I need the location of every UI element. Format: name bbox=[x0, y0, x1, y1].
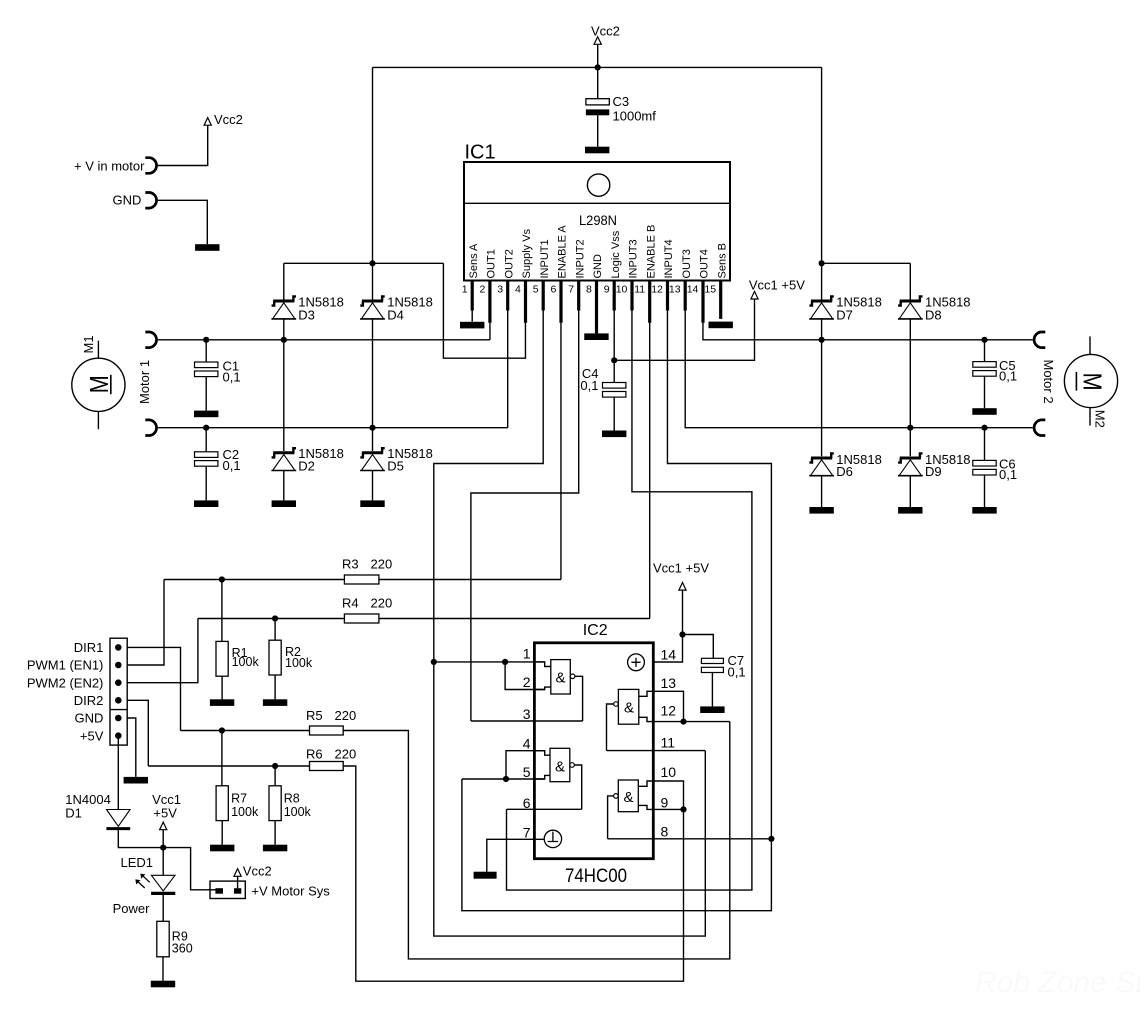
svg-text:7: 7 bbox=[568, 284, 574, 296]
svg-text:Vcc2: Vcc2 bbox=[214, 112, 243, 127]
wire IC2 pin12 bbox=[653, 721, 730, 723]
svg-text:3: 3 bbox=[497, 284, 503, 296]
IC1 pin 14 stub bbox=[701, 281, 704, 323]
svg-text:14: 14 bbox=[687, 284, 699, 296]
IC1 pin 9 stub bbox=[613, 281, 616, 311]
capacitor C7 bbox=[683, 635, 714, 659]
wire IC2 pin1 bbox=[434, 661, 545, 663]
ground D9 bbox=[898, 507, 922, 514]
node R7/R5 bbox=[219, 727, 225, 733]
ground R9 bbox=[151, 981, 175, 988]
diode D6 1N5818 bbox=[821, 340, 823, 456]
node R1/R3 bbox=[219, 576, 225, 582]
node IC2 pin4/pin5 tie bbox=[503, 776, 509, 782]
ground C6 bbox=[972, 507, 996, 514]
wire gate B output to pin11 bbox=[607, 704, 614, 751]
svg-text:M: M bbox=[84, 375, 114, 393]
resistor R2 100k bbox=[274, 619, 276, 641]
svg-text:L298N: L298N bbox=[579, 212, 617, 228]
svg-text:Vcc2: Vcc2 bbox=[591, 24, 620, 39]
svg-text:6: 6 bbox=[551, 284, 557, 296]
wire Logic Vss pin9 to node bbox=[613, 311, 615, 361]
wire IC2 pin2 input jog bbox=[535, 687, 551, 689]
svg-text:7: 7 bbox=[523, 825, 531, 841]
wire OUT3 pin13 to motor2 rail bbox=[685, 311, 1032, 428]
svg-text:&: & bbox=[555, 758, 565, 775]
wire motor1 top rail OUT1 bbox=[158, 339, 490, 341]
IC1 pin 5 stub bbox=[542, 281, 545, 311]
resistor R4 220 bbox=[198, 618, 345, 620]
wire Vcc2 rail left drop bbox=[372, 67, 374, 263]
node IC2 pin1/pin2 tie bbox=[502, 659, 508, 665]
node D3/OUT1 rail bbox=[281, 337, 287, 343]
wire ENABLE A pin6 to R3 bbox=[560, 323, 562, 580]
svg-text:0,1: 0,1 bbox=[999, 467, 1017, 482]
connector motor1 top bbox=[145, 332, 156, 348]
wire Vcc2 diode rail left bbox=[284, 262, 444, 264]
svg-text:+ V in motor: + V in motor bbox=[74, 158, 145, 173]
connector + V in motor bbox=[145, 158, 156, 174]
wire IC2 pin7 to ground bbox=[487, 839, 545, 871]
connector pin PWM1 (EN1) bbox=[115, 662, 122, 669]
svg-text:D1: D1 bbox=[65, 805, 82, 820]
svg-text:4: 4 bbox=[515, 284, 521, 296]
svg-text:Power: Power bbox=[113, 901, 151, 916]
svg-text:0,1: 0,1 bbox=[728, 665, 746, 680]
svg-text:INPUT1: INPUT1 bbox=[539, 239, 551, 278]
capacitor C6 bbox=[984, 428, 986, 461]
IC1 pin 1 stub bbox=[471, 281, 474, 311]
node D7/Vcc2 drop bbox=[819, 260, 825, 266]
node R2/R4 bbox=[272, 615, 278, 621]
ground GND input bbox=[195, 244, 219, 251]
wire IC2 pin4 bbox=[506, 751, 545, 779]
wire Vcc1 node to motor-sys connector bbox=[163, 848, 216, 890]
svg-text:&: & bbox=[624, 699, 634, 716]
svg-text:R5: R5 bbox=[306, 708, 323, 723]
svg-text:11: 11 bbox=[661, 735, 676, 751]
svg-text:0,1: 0,1 bbox=[223, 369, 241, 384]
wire gate C output to pin6 bbox=[574, 765, 581, 809]
wire INPUT1 pin5 to IC2 pin1 and pin11 loop bbox=[434, 311, 706, 937]
ground C7 bbox=[700, 706, 724, 713]
wire M1 bottom lead bbox=[97, 411, 99, 429]
wire OUT2 pin3 to motor1 rail bbox=[507, 311, 509, 428]
svg-text:GND: GND bbox=[592, 254, 604, 279]
svg-text:INPUT2: INPUT2 bbox=[574, 239, 586, 278]
IC1 pin 4 stub bbox=[524, 281, 527, 323]
IC IC1 L298N body bbox=[464, 162, 730, 281]
svg-text:220: 220 bbox=[371, 557, 393, 572]
svg-text:D5: D5 bbox=[387, 459, 404, 474]
svg-text:+5V: +5V bbox=[153, 805, 177, 820]
svg-text:Vcc1 +5V: Vcc1 +5V bbox=[749, 278, 805, 293]
node Vcc1/C7/pin14 bbox=[679, 631, 685, 637]
wire IC2 pin10 to pin9 tie bbox=[653, 781, 683, 809]
svg-text:&: & bbox=[623, 789, 633, 806]
IC1 pin 15 stub bbox=[719, 281, 722, 319]
IC1 pin 2 stub bbox=[488, 281, 491, 323]
wire motor1 bottom rail OUT2 bbox=[158, 427, 508, 429]
svg-text:R6: R6 bbox=[306, 747, 323, 762]
wire IC2 pin10 input jog bbox=[639, 781, 654, 786]
node IC2 pin9/10 tie bbox=[680, 806, 686, 812]
svg-text:220: 220 bbox=[335, 747, 357, 762]
nand gate C IC2 bbox=[550, 748, 570, 781]
svg-text:12: 12 bbox=[651, 284, 663, 296]
svg-text:100k: 100k bbox=[232, 655, 260, 669]
svg-text:GND: GND bbox=[75, 711, 104, 726]
svg-text:9: 9 bbox=[604, 284, 610, 296]
ground C1 bbox=[194, 411, 218, 418]
svg-text:M2: M2 bbox=[1093, 410, 1108, 428]
ground R8 bbox=[263, 845, 287, 852]
resistor R3 220 bbox=[164, 579, 344, 581]
svg-text:DIR1: DIR1 bbox=[74, 640, 104, 655]
node D8/OUT3 rail bbox=[907, 425, 913, 431]
wire IC2 pin5 input jog bbox=[535, 775, 550, 779]
diode D2 1N5818 bbox=[283, 340, 285, 451]
svg-text:+V Motor Sys: +V Motor Sys bbox=[251, 883, 330, 898]
wire IC2 pin13 to pin12 tie bbox=[653, 691, 683, 721]
resistor R8 100k bbox=[274, 766, 276, 786]
nand gate B IC2 bbox=[618, 689, 638, 724]
svg-text:0,1: 0,1 bbox=[223, 458, 241, 473]
svg-text:13: 13 bbox=[661, 675, 677, 691]
svg-text:100k: 100k bbox=[285, 656, 313, 670]
svg-text:2: 2 bbox=[523, 674, 531, 690]
svg-text:Supply Vs: Supply Vs bbox=[521, 228, 533, 278]
wire gate D output to pin8 bbox=[608, 796, 614, 839]
wire INPUT3 pin10 to IC2 pin6 loop bbox=[507, 311, 752, 891]
wire INPUT2 pin7 to IC2 pin3 bbox=[471, 311, 579, 722]
svg-text:11: 11 bbox=[634, 284, 645, 296]
wire Vcc2 rail right drop bbox=[821, 67, 823, 263]
ground C2 bbox=[194, 500, 218, 507]
resistor R9 360 bbox=[157, 921, 169, 957]
wire DIR2 to R6 bbox=[127, 700, 148, 766]
IC1 pin 12 stub bbox=[666, 281, 669, 311]
svg-text:OUT2: OUT2 bbox=[503, 249, 515, 278]
ground R2 bbox=[263, 699, 287, 706]
ground pin IC2 bbox=[544, 830, 561, 847]
node IC2 pin8/INPUT4 runner bbox=[768, 836, 774, 842]
motor M2 bbox=[1064, 354, 1117, 407]
svg-text:8: 8 bbox=[586, 284, 592, 296]
nand gate A IC2 bbox=[551, 660, 571, 694]
connector pin GND bbox=[115, 715, 122, 722]
wire M2 bottom lead bbox=[1089, 408, 1091, 426]
diode D8 1N5818 bbox=[909, 263, 911, 299]
svg-text:R7: R7 bbox=[231, 792, 247, 806]
wire Vcc2 rail top bbox=[373, 66, 822, 68]
power Vcc2 (motor input) bbox=[204, 118, 211, 126]
capacitor C2 bbox=[205, 428, 207, 452]
IC IC2 74HC00 body bbox=[534, 643, 653, 859]
node D7/OUT4 rail bbox=[819, 337, 825, 343]
svg-text:0,1: 0,1 bbox=[580, 378, 598, 393]
IC1 pin 11 stub bbox=[648, 281, 651, 323]
svg-text:OUT4: OUT4 bbox=[699, 249, 711, 278]
connector pin PWM2 (EN2) bbox=[115, 679, 122, 686]
svg-text:D9: D9 bbox=[925, 464, 942, 479]
svg-text:C3: C3 bbox=[613, 94, 630, 109]
svg-text:GND: GND bbox=[113, 192, 142, 207]
svg-text:D3: D3 bbox=[298, 307, 315, 322]
wire DIR1 to R5 bbox=[127, 647, 180, 730]
svg-text:PWM1 (EN1): PWM1 (EN1) bbox=[27, 658, 104, 673]
svg-text:IC1: IC1 bbox=[465, 142, 496, 164]
wire M2 top lead bbox=[1089, 336, 1091, 354]
svg-text:R3: R3 bbox=[342, 557, 359, 572]
capacitor C4 bbox=[613, 360, 615, 382]
svg-text:3: 3 bbox=[523, 706, 531, 722]
svg-text:1: 1 bbox=[462, 284, 468, 296]
ground IC2 pin7 bbox=[474, 872, 497, 879]
IC1 pin 13 stub bbox=[684, 281, 687, 311]
svg-text:PWM2 (EN2): PWM2 (EN2) bbox=[27, 675, 104, 690]
connector motor2 bottom bbox=[1034, 420, 1045, 436]
wire PWM1 to R3 bbox=[127, 580, 164, 666]
connector input header bbox=[110, 638, 127, 745]
nand gate D IC2 bbox=[618, 780, 638, 812]
IC1 pin 6 stub bbox=[559, 281, 562, 323]
motor M1 bbox=[72, 358, 125, 411]
diode D7 1N5818 bbox=[821, 263, 823, 299]
resistor R7 100k bbox=[221, 731, 223, 786]
wire ENABLE B pin11 to R4 bbox=[649, 323, 651, 619]
svg-text:Rob Zone SL: Rob Zone SL bbox=[975, 966, 1140, 999]
ground C5 bbox=[972, 408, 996, 415]
wire R6 to IC2 pins9/10 loop bbox=[343, 766, 683, 981]
svg-text:M1: M1 bbox=[81, 335, 96, 353]
svg-text:9: 9 bbox=[661, 795, 669, 811]
wire IC2 pin11 bbox=[607, 750, 706, 752]
wire R5 to IC2 pins12/13 loop bbox=[343, 722, 730, 959]
svg-text:ENABLE B: ENABLE B bbox=[645, 225, 657, 279]
svg-text:0,1: 0,1 bbox=[999, 369, 1017, 384]
IC1 pin 10 stub bbox=[630, 281, 633, 311]
svg-text:D2: D2 bbox=[298, 459, 315, 474]
svg-text:IC2: IC2 bbox=[583, 622, 608, 639]
wire IC2 pin8 bbox=[608, 838, 772, 840]
svg-text:8: 8 bbox=[661, 824, 669, 840]
capacitor C3 1000mf bbox=[597, 67, 599, 98]
ground D2 bbox=[272, 500, 296, 507]
power pin IC2 plus bbox=[628, 654, 645, 671]
svg-text:100k: 100k bbox=[231, 805, 259, 819]
svg-text:D7: D7 bbox=[836, 307, 853, 322]
svg-text:Logic Vss: Logic Vss bbox=[610, 230, 622, 278]
svg-text:M: M bbox=[1077, 373, 1107, 391]
connector pin +5V bbox=[115, 732, 122, 739]
svg-text:R4: R4 bbox=[342, 595, 359, 610]
svg-text:Sens B: Sens B bbox=[716, 243, 728, 278]
diode D4 1N5818 bbox=[372, 263, 374, 299]
IC1 pin 7 stub bbox=[577, 281, 580, 311]
wire gate A output to pin3 bbox=[575, 676, 583, 721]
ground C4 bbox=[602, 431, 626, 438]
wire Vcc2 arrow to rail bbox=[597, 44, 599, 67]
node INPUT1/IC2 pin1 bbox=[431, 659, 437, 665]
node Vcc2/C3 junction bbox=[595, 64, 601, 70]
wire IC2 pin4 input jog bbox=[535, 751, 550, 756]
svg-text:LED1: LED1 bbox=[121, 855, 154, 870]
node C1 top rail bbox=[203, 337, 209, 343]
resistor R5 220 bbox=[181, 730, 310, 732]
svg-text:Motor 1: Motor 1 bbox=[137, 360, 152, 404]
wire IC2 pin9 input jog bbox=[639, 805, 654, 809]
ground D6 bbox=[809, 507, 833, 514]
wire INPUT4 pin12 to IC2 pin8/pin5 loop bbox=[462, 311, 772, 911]
connector pin DIR2 bbox=[115, 697, 122, 704]
svg-text:OUT1: OUT1 bbox=[486, 249, 498, 278]
LED LED1 bbox=[162, 848, 164, 876]
svg-text:R8: R8 bbox=[284, 792, 300, 806]
svg-text:5: 5 bbox=[533, 284, 539, 296]
svg-text:220: 220 bbox=[335, 708, 357, 723]
connector motor2 top bbox=[1034, 332, 1045, 348]
wire GND pin to ground bbox=[127, 718, 136, 777]
connector motor1 bottom bbox=[145, 420, 156, 436]
wire Vcc2 diode rail right bbox=[822, 262, 911, 264]
ground input header bbox=[124, 777, 148, 784]
svg-text:OUT3: OUT3 bbox=[681, 249, 693, 278]
node Logic Vss / C4 bbox=[611, 357, 617, 363]
svg-text:12: 12 bbox=[661, 703, 677, 719]
node IC2 pin12/13 tie bbox=[680, 719, 686, 725]
ground R7 bbox=[210, 845, 234, 852]
ground IC1 pin15 SensB bbox=[709, 322, 733, 329]
connector GND input bbox=[145, 193, 156, 209]
svg-text:Motor 2: Motor 2 bbox=[1041, 360, 1056, 404]
svg-text:10: 10 bbox=[616, 284, 628, 296]
wire Supply Vs pin4 to Vcc2 diode rail bbox=[443, 263, 525, 358]
svg-text:Vcc2: Vcc2 bbox=[243, 864, 272, 879]
node C2 bottom rail bbox=[203, 425, 209, 431]
svg-text:1000mf: 1000mf bbox=[613, 109, 657, 124]
node R8/R6 bbox=[272, 763, 278, 769]
wire IC2 pin3 bbox=[471, 720, 583, 722]
svg-text:INPUT4: INPUT4 bbox=[663, 239, 675, 278]
diode D3 1N5818 bbox=[283, 263, 285, 299]
wire IC2 pin12 input jog bbox=[639, 717, 654, 721]
capacitor C5 bbox=[984, 340, 986, 362]
node D5/OUT2 rail bbox=[369, 425, 375, 431]
svg-text:6: 6 bbox=[523, 795, 531, 811]
node C6 bottom rail bbox=[981, 425, 987, 431]
svg-text:Sens A: Sens A bbox=[468, 243, 480, 279]
wire OUT4 pin14 to motor2 rail bbox=[703, 323, 1033, 340]
IC1 pin 8 stub bbox=[595, 281, 598, 333]
svg-text:D6: D6 bbox=[836, 464, 853, 479]
wire motor-sys connector to Vcc2 arrow bbox=[237, 876, 239, 888]
svg-text:15: 15 bbox=[704, 284, 716, 296]
power Vcc2 (motor sys) bbox=[234, 869, 241, 877]
svg-text:+5V: +5V bbox=[80, 728, 104, 743]
svg-text:2: 2 bbox=[479, 284, 485, 296]
ground D5 bbox=[360, 500, 384, 507]
wire OUT1 pin2 to motor1 rail bbox=[489, 323, 491, 340]
svg-text:13: 13 bbox=[669, 284, 681, 296]
resistor R1 100k bbox=[221, 580, 223, 642]
connector +V Motor Sys bbox=[210, 881, 245, 898]
svg-text:4: 4 bbox=[523, 736, 531, 752]
svg-text:&: & bbox=[555, 669, 565, 686]
ground IC1 pin8 GND bbox=[584, 333, 608, 340]
svg-text:360: 360 bbox=[172, 942, 193, 956]
node C5 top rail bbox=[981, 337, 987, 343]
svg-text:INPUT3: INPUT3 bbox=[628, 239, 640, 278]
diode D1 1N4004 bbox=[117, 736, 119, 810]
node D4/Vcc2 rail bbox=[369, 260, 375, 266]
wire GND connector to ground bbox=[158, 200, 207, 244]
svg-text:D8: D8 bbox=[925, 307, 942, 322]
wire PWM2 to R4 bbox=[127, 619, 198, 683]
capacitor C1 bbox=[205, 340, 207, 362]
wire IC2 pin6 bbox=[507, 808, 582, 810]
wire IC2 pin5 bbox=[462, 778, 545, 780]
svg-text:D4: D4 bbox=[387, 307, 404, 322]
connector pin DIR1 bbox=[115, 644, 122, 651]
wire IC2 pin13 input jog bbox=[639, 691, 654, 696]
diode D9 1N5818 bbox=[909, 428, 911, 457]
svg-text:5: 5 bbox=[523, 764, 531, 780]
wire +V in motor to Vcc2 arrow bbox=[158, 125, 208, 165]
resistor R6 220 bbox=[148, 765, 309, 767]
svg-text:DIR2: DIR2 bbox=[74, 693, 104, 708]
ground C3 bbox=[585, 147, 609, 154]
svg-text:Vcc1 +5V: Vcc1 +5V bbox=[653, 560, 709, 575]
wire M1 top lead bbox=[97, 341, 99, 359]
wire IC2 pin9 bbox=[653, 808, 683, 810]
wire IC2 pin1 input jog bbox=[535, 662, 551, 667]
wire IC2 pin1-pin2 tie bbox=[505, 662, 545, 690]
node Vcc1/D1/LED1 bbox=[160, 845, 166, 851]
svg-text:14: 14 bbox=[661, 647, 677, 663]
svg-text:220: 220 bbox=[371, 595, 393, 610]
svg-text:ENABLE A: ENABLE A bbox=[557, 225, 569, 279]
IC1 pin 3 stub bbox=[506, 281, 509, 311]
ground IC1 pin1 SensA bbox=[471, 311, 473, 322]
wire IC2 pin14 to Vcc1 bbox=[653, 635, 682, 663]
svg-text:100k: 100k bbox=[284, 805, 312, 819]
svg-text:74HC00: 74HC00 bbox=[565, 866, 627, 887]
diode D5 1N5818 bbox=[372, 428, 374, 451]
wire Vcc1 to Logic Vss pin9 bbox=[614, 299, 754, 360]
svg-text:1: 1 bbox=[523, 645, 531, 661]
svg-text:10: 10 bbox=[661, 764, 677, 780]
ground R1 bbox=[210, 699, 234, 706]
